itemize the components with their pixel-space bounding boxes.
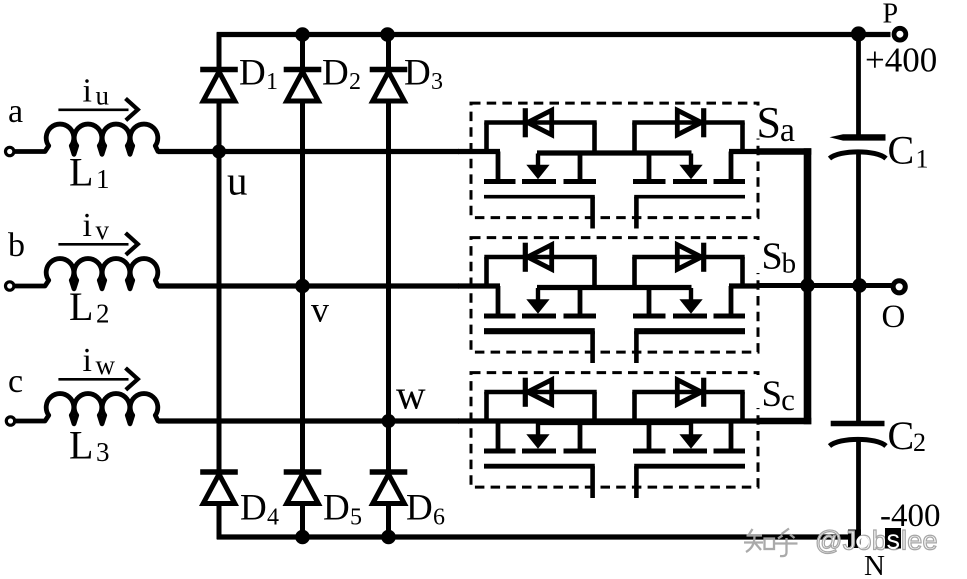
svg-text:D: D (322, 53, 349, 94)
capacitor C2 plate top (831, 421, 885, 427)
label Sc (757, 375, 798, 408)
wire diode branch left right stub (592, 123, 597, 153)
mosfet right drain stub (729, 152, 734, 182)
svg-text:i: i (83, 207, 92, 244)
svg-text:1: 1 (96, 164, 110, 194)
mosfet left gate plate (484, 195, 595, 199)
mosfet right drain stub (729, 421, 734, 451)
mosfet left gate lead (590, 331, 595, 363)
terminal a (6, 147, 14, 155)
wire O line (Sb output) (758, 283, 893, 288)
mosfet left gate lead (590, 197, 595, 229)
mosfet right body stub + arrow (689, 154, 693, 167)
capacitor C1 plate top (830, 134, 886, 140)
diode D6 bar (370, 469, 408, 474)
svg-text:P: P (883, 0, 899, 30)
mosfet left contact bars (484, 314, 516, 319)
svg-text:i: i (83, 73, 92, 110)
wire column 1 from top rail to D1 (217, 33, 222, 70)
capacitor C1 plate bottom (curved) (830, 152, 887, 159)
wire phase left segment (458, 149, 500, 154)
mosfet right drain stub (729, 286, 734, 316)
mosfet right gate plate (634, 195, 745, 199)
wire phase left segment (458, 283, 500, 288)
wire S common bus vertical (804, 148, 812, 424)
svg-text:1: 1 (916, 145, 929, 174)
diode right (cathode bar) (701, 243, 706, 272)
mosfet left drain stub (496, 286, 501, 316)
wire bottom rail (N bus) (217, 534, 859, 539)
diode right triangle (677, 110, 701, 135)
node dot bottom rail / D5 (295, 530, 310, 545)
dashed box Sa (471, 103, 758, 218)
mosfet right source stub (647, 154, 652, 182)
mosfet left drain stub (496, 421, 501, 451)
mosfet left gate plate (484, 328, 595, 334)
mosfet left source stub (578, 423, 583, 451)
svg-text:3: 3 (431, 69, 443, 95)
diode left triangle (528, 110, 552, 135)
svg-text:w: w (396, 372, 426, 418)
wire column 2 from top rail to D2 (300, 33, 305, 70)
terminal P (894, 28, 906, 40)
wire phase a to cell (158, 149, 459, 154)
svg-text:2: 2 (96, 299, 110, 329)
mosfet right body stub + arrow (689, 288, 693, 301)
mosfet left source stub (578, 154, 583, 182)
wire C2 to bottom rail (856, 440, 861, 537)
wire center (source) segment (537, 150, 692, 155)
node u dot (212, 145, 226, 159)
wire column 2 mid (300, 101, 305, 473)
svg-text:D: D (406, 488, 433, 529)
svg-text:u: u (96, 81, 110, 111)
svg-text:i: i (83, 342, 92, 379)
wire Sc output (758, 418, 811, 425)
capacitor C2 plate bottom (curved) (830, 439, 887, 446)
diode left (cathode bar) (523, 378, 528, 407)
svg-text:D: D (404, 53, 431, 94)
diode left (cathode bar) (523, 243, 528, 272)
switch cell Sa group (458, 103, 758, 228)
current arrow i_w (58, 378, 128, 381)
wire column 2 to bottom rail (300, 503, 305, 539)
wire diode branch left right stub (592, 392, 597, 422)
node dot S bus / O (800, 278, 814, 292)
mosfet left gate lead (590, 466, 595, 498)
wire column 3 mid (386, 101, 391, 473)
wire column 1 mid (217, 101, 222, 473)
wire diode branch right top (632, 255, 744, 260)
svg-text:3: 3 (96, 437, 110, 467)
wire diode branch right stub (740, 392, 745, 422)
diode right triangle (677, 245, 701, 270)
inductor L2 (13, 259, 160, 289)
dashed box Sb (471, 238, 758, 353)
terminal c (6, 417, 14, 425)
node dot bottom rail / D6 (381, 530, 396, 545)
node dot DC midpoint (852, 278, 866, 292)
mosfet right source stub (647, 288, 652, 316)
svg-text:2: 2 (349, 69, 361, 95)
wire top rail (P bus) (217, 32, 891, 37)
diode D5 bar (284, 469, 322, 474)
mosfet left body stub + arrow (536, 154, 540, 167)
svg-text:S: S (762, 374, 783, 415)
svg-text:+400: +400 (865, 41, 937, 80)
wire diode branch right top (632, 390, 744, 395)
wire diode branch left stub (484, 392, 489, 422)
wire C1 to O node (856, 152, 861, 286)
wire phase right segment (729, 283, 758, 288)
switch cell Sb group (458, 238, 758, 363)
wire phase c to cell (158, 418, 459, 423)
wire diode branch left top (484, 390, 596, 395)
node v dot (295, 279, 310, 294)
diode right (cathode bar) (701, 108, 706, 137)
mosfet right gate lead (634, 331, 639, 363)
svg-text:D: D (323, 488, 350, 529)
svg-text:O: O (882, 299, 906, 335)
wire diode branch right left stub (632, 257, 637, 287)
wire center (source) segment (537, 420, 692, 425)
watermark white o ring (858, 537, 868, 547)
wire diode branch left top (484, 255, 596, 260)
mosfet left gate plate (484, 464, 595, 469)
svg-text:c: c (8, 363, 23, 400)
svg-text:4: 4 (267, 505, 279, 531)
wire phase b to cell (158, 283, 459, 288)
diode left triangle (528, 380, 552, 405)
mosfet right contact bars (714, 314, 746, 319)
svg-text:b: b (782, 248, 797, 280)
wire Sa output (758, 148, 811, 155)
svg-text:u: u (227, 158, 248, 204)
wire diode branch right top (632, 120, 744, 125)
wire column 3 to bottom rail (386, 503, 391, 539)
mosfet right body stub + arrow (689, 423, 693, 436)
current arrow i_u (58, 109, 128, 112)
svg-text:v: v (96, 215, 110, 245)
mosfet left source stub (578, 288, 583, 316)
wire diode branch left top (484, 120, 596, 125)
watermark black square behind s (885, 528, 901, 549)
mosfet left contact bars (484, 449, 516, 454)
watermark zhihu characters (744, 529, 798, 557)
svg-text:L: L (69, 284, 93, 329)
current arrow i_v (58, 243, 128, 246)
mosfet right gate plate (634, 328, 745, 334)
wire O node to C2 (856, 286, 861, 423)
svg-text:L: L (69, 150, 93, 195)
mosfet right gate lead (634, 466, 639, 498)
diode D4 bar (200, 469, 238, 474)
svg-text:L: L (69, 423, 93, 468)
diode D2 bar (284, 67, 322, 72)
svg-text:D: D (240, 488, 267, 529)
mosfet right contact bars (714, 179, 746, 184)
svg-text:b: b (8, 227, 25, 264)
node dot top rail / D2 (295, 27, 310, 42)
diode left triangle (528, 245, 552, 270)
wire column 3 from top rail to D3 (386, 33, 391, 70)
svg-text:D: D (239, 53, 266, 94)
svg-text:a: a (8, 93, 23, 130)
mosfet right gate plate (634, 464, 745, 469)
wire center (source) segment (537, 285, 692, 290)
svg-text:2: 2 (913, 428, 926, 457)
wire diode branch right left stub (632, 123, 637, 153)
svg-text:S: S (757, 98, 781, 147)
node dot top rail / DC bus (851, 26, 866, 41)
dashed box Sc (471, 373, 758, 488)
wire phase right segment (729, 149, 758, 154)
mosfet left drain stub (496, 152, 501, 182)
diode right triangle (677, 380, 701, 405)
terminal b (6, 282, 14, 290)
wire diode branch left right stub (592, 257, 597, 287)
diode D3 bar (370, 67, 408, 72)
svg-text:6: 6 (433, 505, 445, 531)
wire diode branch right left stub (632, 392, 637, 422)
svg-text:a: a (780, 112, 795, 149)
wire diode branch right stub (740, 123, 745, 153)
svg-text:C: C (888, 413, 915, 458)
mosfet left body stub + arrow (536, 288, 540, 301)
terminal O (893, 281, 905, 293)
mosfet right gate lead (634, 197, 639, 229)
svg-text:1: 1 (266, 69, 278, 95)
mosfet left contact bars (484, 179, 516, 184)
svg-text:5: 5 (350, 505, 362, 531)
mosfet left body stub + arrow (536, 423, 540, 436)
node joint bottom rail / DC bus (848, 530, 861, 549)
wire phase through cell (458, 418, 758, 423)
wire diode branch right stub (740, 257, 745, 287)
svg-text:v: v (311, 290, 329, 330)
diode right (cathode bar) (701, 378, 706, 407)
diode D1 bar (200, 67, 238, 72)
node dot top rail / D3 (380, 27, 395, 42)
svg-text:c: c (781, 382, 795, 417)
wire diode branch left stub (484, 257, 489, 287)
svg-text:@Jobslee: @Jobslee (815, 526, 938, 556)
diode left (cathode bar) (523, 108, 528, 137)
inductor L1 (13, 124, 160, 154)
svg-text:s: s (887, 525, 901, 555)
wire diode branch left stub (484, 123, 489, 153)
svg-text:C: C (888, 128, 915, 173)
wire DC bus P to C1 (856, 35, 861, 137)
mosfet right source stub (647, 423, 652, 451)
node w dot (382, 414, 396, 428)
switch cell Sc group (458, 373, 758, 498)
inductor L3 (13, 394, 160, 424)
label Sa (757, 106, 798, 139)
label Sb (757, 240, 798, 273)
wire column 1 to bottom rail (217, 503, 222, 539)
mosfet right contact bars (714, 449, 746, 454)
svg-text:w: w (96, 350, 116, 380)
svg-text:S: S (762, 236, 783, 278)
